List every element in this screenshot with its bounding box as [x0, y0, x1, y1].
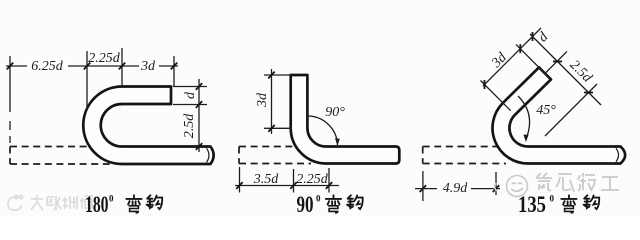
dashed bar continuation (left)	[10, 147, 113, 165]
svg-text:135: 135	[518, 192, 546, 216]
ticks L1	[485, 32, 533, 89]
ticks L2	[553, 62, 593, 93]
rebar 180-degree hook outline	[83, 87, 213, 165]
svg-text:90°: 90°	[325, 105, 345, 120]
svg-text:2.25d: 2.25d	[296, 172, 329, 187]
watermark text left	[31, 195, 93, 210]
bottom dimension line 3.5d / 2.25d	[235, 185, 339, 187]
extension line Eb (through tip center)	[516, 44, 549, 77]
svg-text:2.5d: 2.5d	[182, 113, 197, 139]
svg-text:6.25d: 6.25d	[31, 59, 64, 74]
watermark text right	[536, 173, 619, 192]
extension E low	[545, 84, 597, 136]
extension E up	[545, 51, 567, 73]
bar end crescent (right)	[616, 148, 619, 162]
rebar 90-degree hook outline	[291, 75, 400, 164]
svg-text:90: 90	[297, 192, 314, 216]
bar end crescent (left)	[207, 148, 210, 162]
svg-text:0: 0	[550, 194, 555, 204]
ticks 4.9d	[420, 185, 500, 192]
extension line x=10	[9, 56, 11, 143]
label 3d	[139, 59, 159, 71]
angle arrowhead (right)	[523, 135, 528, 142]
watermark logo left	[8, 195, 23, 210]
extension line x=174	[173, 56, 175, 86]
extension lines for d / 2.5d	[173, 87, 207, 105]
right vertical dimension line	[198, 79, 200, 152]
dimension line 6.25d / 2.25d / 3d	[6, 65, 178, 67]
watermark logo right	[495, 176, 528, 197]
45-degree angle arc	[518, 96, 530, 139]
angle arrowhead	[335, 138, 340, 146]
3d extension lines (middle)	[264, 75, 292, 128]
extension line Ea (bend tangent)	[481, 81, 511, 111]
svg-text:2.5d: 2.5d	[567, 58, 596, 87]
3d dimension line (middle)	[271, 69, 273, 134]
bottom extension lines (middle)	[240, 167, 330, 193]
90-degree angle arc	[308, 116, 338, 146]
svg-text:45°: 45°	[536, 103, 556, 118]
svg-text:4.9d: 4.9d	[443, 181, 469, 196]
4.9d dimension line	[415, 188, 500, 190]
svg-text:3d: 3d	[489, 50, 511, 72]
ticks top dims	[7, 63, 177, 70]
extension line x=87	[86, 51, 88, 110]
dimension line L1 (3d and d)	[483, 28, 541, 86]
svg-text:d: d	[183, 91, 198, 99]
svg-text:0: 0	[109, 194, 114, 204]
svg-text:3d: 3d	[140, 59, 156, 74]
ticks right dims	[196, 83, 202, 150]
dimension line L2 (2.5d)	[530, 34, 601, 105]
label 4.9d	[437, 181, 471, 192]
svg-text:3d: 3d	[255, 92, 270, 108]
ticks 3d (middle)	[268, 72, 274, 132]
svg-text:3.5d: 3.5d	[253, 172, 280, 187]
rebar 135-degree hook outline	[493, 67, 626, 163]
svg-text:0: 0	[316, 194, 321, 204]
4.9d extension lines	[423, 171, 496, 201]
dashed bar continuation (middle)	[239, 147, 311, 164]
dashed bar continuation (right)	[423, 147, 506, 164]
label 6.25d	[27, 59, 68, 71]
extension line x=122	[121, 48, 123, 86]
ticks bottom dims (middle)	[236, 182, 332, 189]
svg-text:2.25d: 2.25d	[88, 51, 121, 66]
svg-text:180: 180	[85, 192, 109, 216]
